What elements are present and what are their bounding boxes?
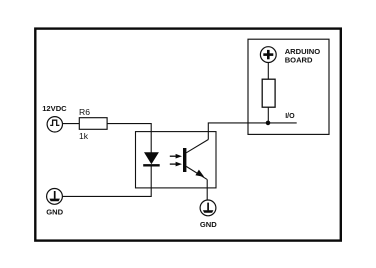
- node I/O junction: [266, 121, 271, 126]
- svg-text:GND: GND: [200, 220, 217, 229]
- svg-text:1k: 1k: [79, 131, 89, 141]
- svg-text:BOARD: BOARD: [285, 56, 313, 65]
- wire LED cathode to GND: [62, 165, 151, 196]
- LED D1: [143, 152, 160, 165]
- wire supply to pull-up resistor: [267, 63, 269, 80]
- ground GND2: [200, 200, 216, 216]
- wire collector to I/O node: [208, 123, 296, 140]
- phototransistor Q1: [183, 140, 208, 180]
- pulse voltage source V1: [47, 117, 62, 132]
- svg-text:GND: GND: [46, 208, 63, 217]
- ground GND1: [47, 189, 63, 205]
- label R6: [79, 107, 90, 117]
- label 12VDC: [42, 104, 67, 113]
- label ARDUINO BOARD: [285, 47, 321, 64]
- power supply +: [260, 47, 276, 63]
- label GND (left): [46, 208, 63, 217]
- light arrows: [170, 154, 182, 167]
- svg-text:12VDC: 12VDC: [42, 104, 67, 113]
- resistor R6: [79, 118, 107, 130]
- svg-text:R6: R6: [79, 107, 90, 117]
- Arduino board box: [248, 39, 329, 134]
- label I/O: [285, 112, 295, 120]
- optocoupler U1 body: [136, 132, 217, 188]
- wire pull-up to node: [267, 107, 269, 123]
- label GND (center): [200, 220, 217, 229]
- label 1k: [79, 131, 89, 141]
- wire R6 to LED anode: [107, 124, 151, 153]
- wire source to R6: [63, 123, 80, 125]
- wire emitter to GND: [206, 179, 208, 201]
- resistor pull-up: [262, 79, 275, 107]
- svg-text:I/O: I/O: [285, 112, 295, 120]
